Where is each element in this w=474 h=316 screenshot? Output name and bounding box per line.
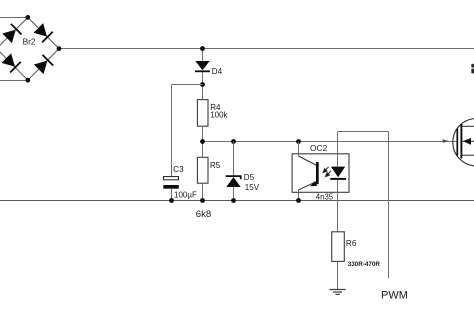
MOSFET gate connection arrow bbox=[443, 139, 450, 143]
MOSFET drain stub bbox=[461, 125, 474, 127]
wire opto collector bbox=[298, 142, 300, 156]
resistor R4 bbox=[197, 100, 208, 127]
MOSFET body diode arrow bbox=[461, 138, 474, 145]
wire PWM vertical bbox=[388, 132, 390, 279]
wire opto emitter bbox=[298, 190, 300, 201]
MOSFET source stub bbox=[461, 154, 474, 156]
svg-text:100k: 100k bbox=[210, 111, 228, 120]
junction bridge top vertex bbox=[25, 15, 30, 20]
optocoupler OC2 box bbox=[292, 154, 349, 193]
wire DC+ rail bbox=[59, 48, 474, 50]
wire LED cathode down bbox=[337, 180, 339, 232]
bridge diode top-right bbox=[33, 23, 53, 43]
MOSFET Q1 body circle bbox=[453, 119, 474, 166]
wire AC input top-left bbox=[0, 17, 28, 19]
wire D5 bottom bbox=[233, 187, 235, 201]
junction opto emitter rail bbox=[296, 198, 301, 203]
cut-off label glyph at right edge bbox=[471, 64, 474, 74]
junction opto collector bbox=[296, 139, 301, 144]
svg-text:6k8: 6k8 bbox=[196, 209, 211, 220]
junction D4 top bbox=[200, 46, 205, 51]
ground symbol bbox=[330, 290, 346, 295]
svg-text:Br2: Br2 bbox=[23, 36, 36, 46]
wire bottom 0V rail bbox=[0, 200, 474, 202]
svg-text:C3: C3 bbox=[173, 164, 184, 174]
wire D4 cathode to R4 bbox=[202, 72, 204, 100]
bridge diode bottom-right bbox=[33, 55, 53, 75]
wire PWM loop top bbox=[338, 131, 389, 133]
wire gate node horizontal bbox=[203, 141, 458, 143]
wire C3 branch horizontal bbox=[172, 84, 203, 86]
capacitor C3 top plate bbox=[164, 177, 179, 180]
junction node D5 bbox=[231, 139, 236, 144]
opto light arrows bbox=[323, 167, 331, 177]
bridge diode bottom-left bbox=[1, 53, 21, 73]
bridge diode top-left bbox=[2, 24, 22, 44]
resistor R6 bbox=[332, 232, 345, 262]
resistor R5 bbox=[197, 157, 208, 183]
junction D5 rail bbox=[231, 198, 236, 203]
svg-text:R5: R5 bbox=[210, 161, 221, 170]
svg-text:330R-470R: 330R-470R bbox=[348, 261, 381, 268]
junction bridge right vertex bbox=[57, 46, 62, 51]
svg-text:D4: D4 bbox=[212, 67, 223, 76]
junction C3 rail bbox=[169, 198, 174, 203]
svg-text:R6: R6 bbox=[346, 238, 357, 248]
svg-text:D5: D5 bbox=[244, 173, 255, 182]
svg-text:100µF: 100µF bbox=[174, 191, 197, 200]
wire R4 to node bbox=[202, 126, 204, 157]
wire C3 top bbox=[171, 85, 173, 177]
diode D4 bbox=[195, 61, 210, 71]
opto LED bbox=[330, 167, 346, 180]
wire R6 to ground bbox=[337, 261, 339, 289]
MOSFET gate bar bbox=[456, 129, 458, 156]
svg-text:PWM: PWM bbox=[381, 289, 408, 301]
wire AC input bottom-left bbox=[0, 80, 28, 82]
wire D4 anode bbox=[202, 49, 204, 61]
MOSFET channel bar bbox=[460, 124, 462, 159]
wire LED anode up bbox=[337, 132, 339, 167]
junction bridge bottom vertex bbox=[25, 78, 30, 83]
junction R5 rail bbox=[200, 198, 205, 203]
svg-text:4n35: 4n35 bbox=[316, 193, 334, 202]
wire C3 bottom bbox=[171, 189, 173, 201]
svg-text:OC2: OC2 bbox=[310, 143, 328, 153]
junction C3 branch bbox=[200, 82, 205, 87]
junction node R4-R5 bbox=[200, 139, 205, 144]
zener diode D5 bbox=[226, 176, 241, 187]
capacitor C3 bottom plate bbox=[163, 185, 179, 189]
opto phototransistor bbox=[299, 156, 319, 190]
wire D5 top bbox=[233, 142, 235, 176]
svg-text:15V: 15V bbox=[245, 183, 260, 192]
bridge Br2 frame wires bbox=[0, 17, 59, 80]
wire R5 to rail bbox=[202, 183, 204, 200]
